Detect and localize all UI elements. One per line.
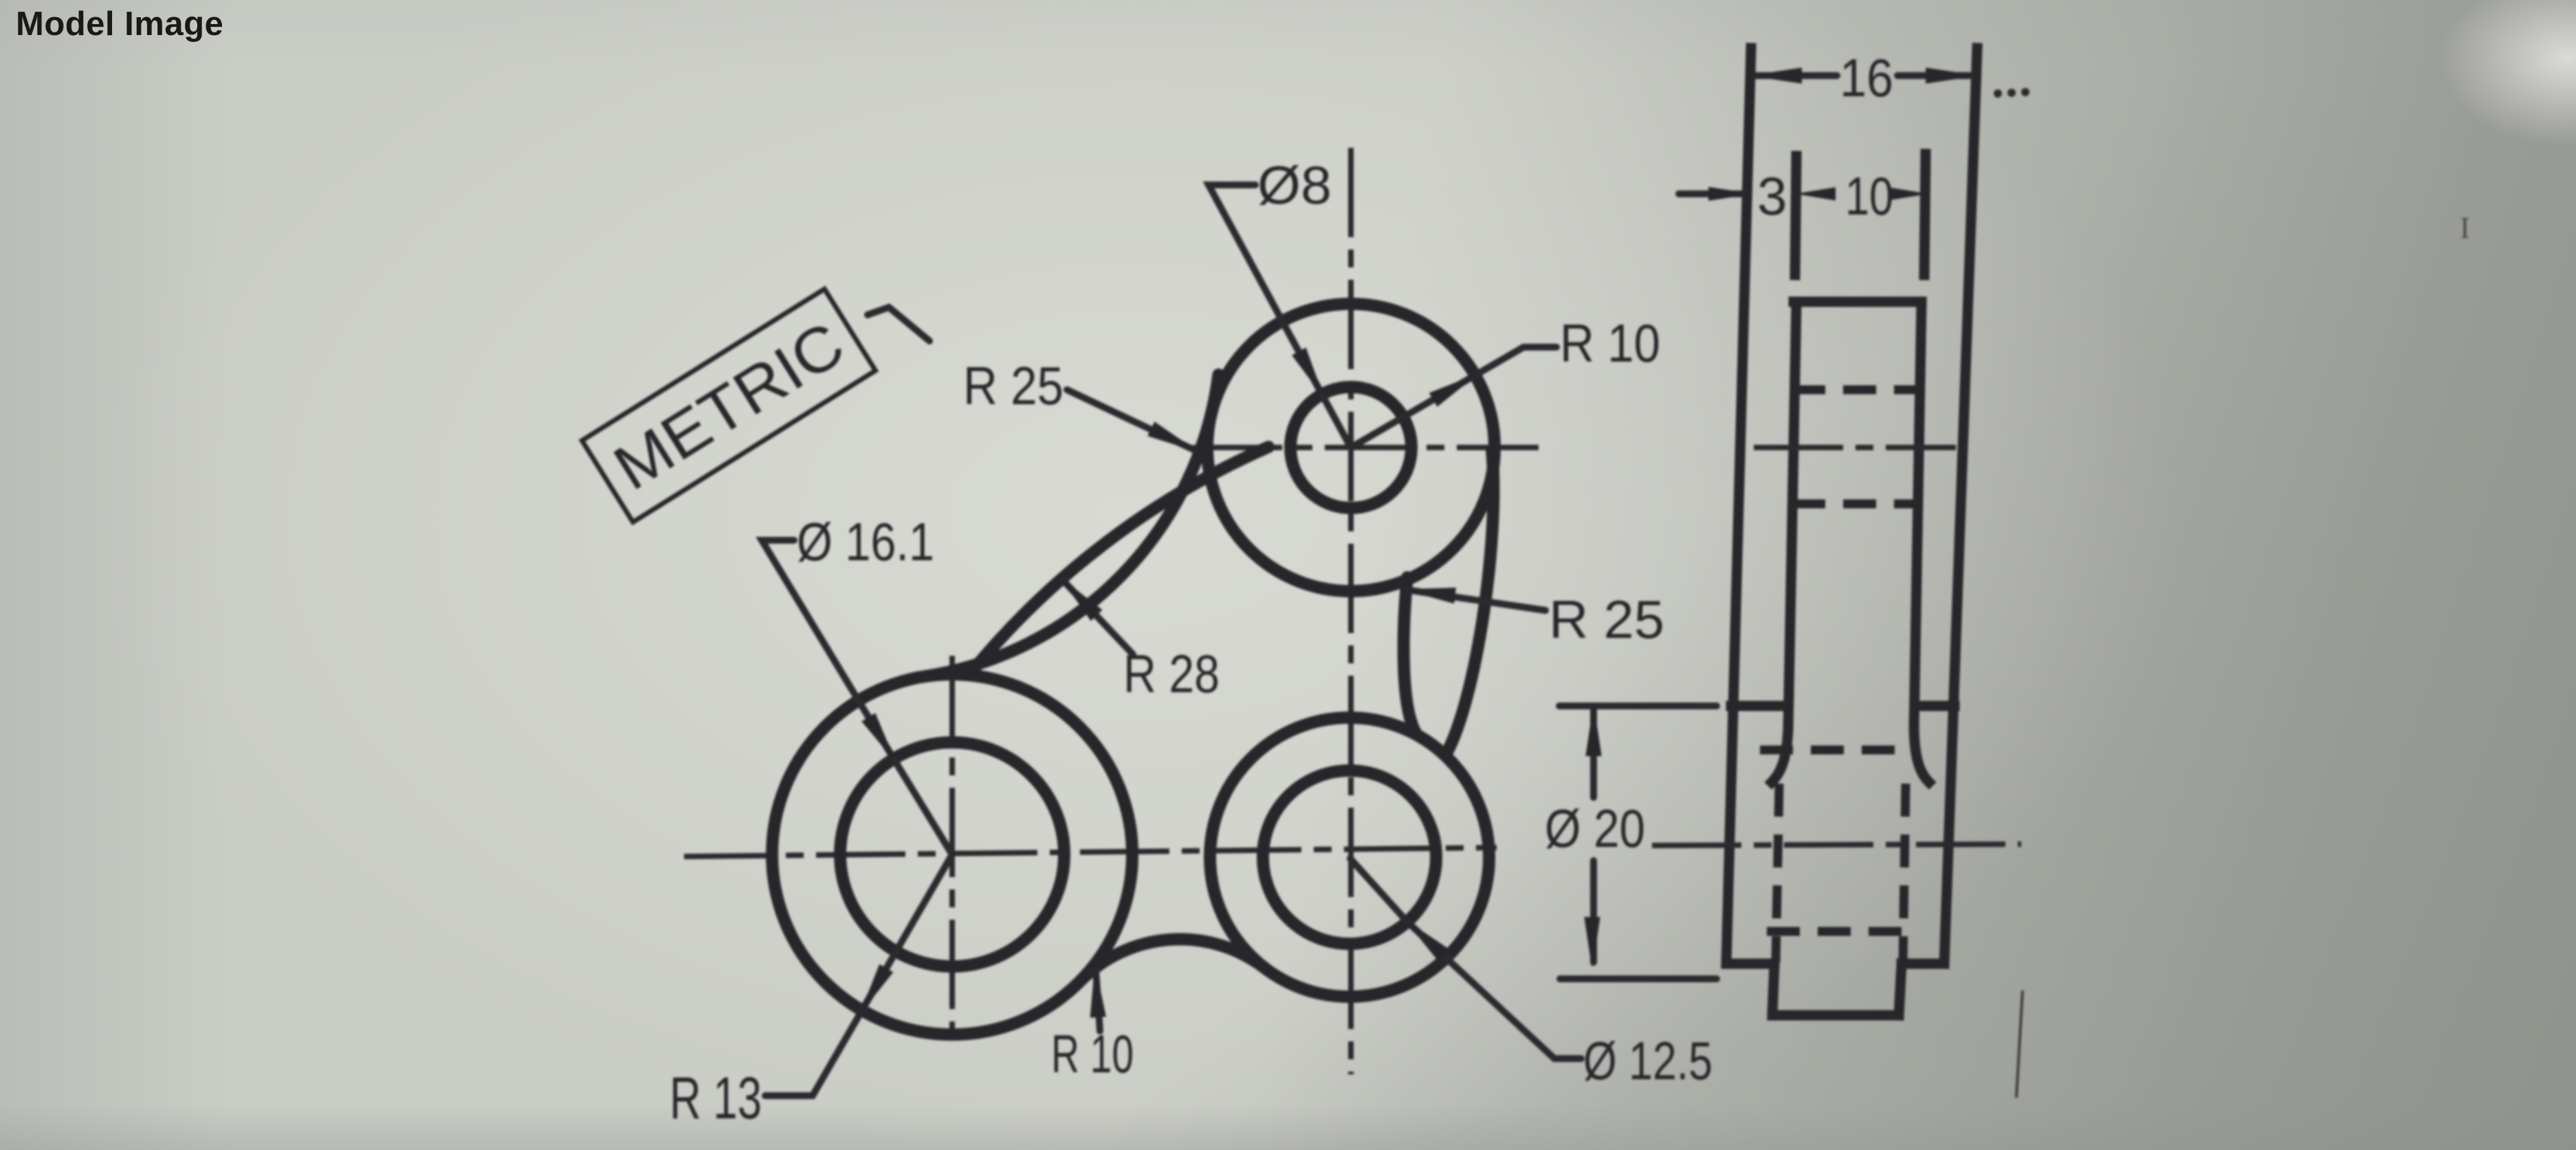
dim 3 and 10 xyxy=(1679,190,1746,197)
tangent arc R28 xyxy=(969,447,1269,675)
dia 20 dimension xyxy=(1559,703,1717,709)
left boss hidden edges xyxy=(1776,784,1906,962)
step sides xyxy=(1772,964,1902,1015)
svg-text:Ø 16.1: Ø 16.1 xyxy=(797,511,934,572)
neck left line with runout hook xyxy=(1772,302,1796,782)
bottom fillet arc R10 xyxy=(1081,939,1265,981)
hole dia8 hidden lines xyxy=(1792,390,1920,504)
centerline vertical left boss xyxy=(949,656,955,1043)
centerline vertical through top and right bosses xyxy=(1348,148,1354,1074)
left boss outer circle R13 xyxy=(772,674,1132,1035)
svg-text:R 25: R 25 xyxy=(963,355,1064,416)
right boss outer circle dia 20 xyxy=(1210,718,1489,997)
METRIC stamp xyxy=(582,289,876,522)
side view left face / extension line xyxy=(1726,48,1751,964)
svg-text:3: 3 xyxy=(1757,166,1787,226)
neck right edge arc R25 xyxy=(1446,450,1493,753)
side view right face / extension line xyxy=(1944,48,1977,964)
svg-text:R 13: R 13 xyxy=(670,1065,762,1131)
svg-text:10: 10 xyxy=(1845,166,1893,226)
top boss centerline xyxy=(1754,445,1956,450)
svg-text:I: I xyxy=(2460,211,2470,245)
dim 16 xyxy=(1755,72,1972,79)
dots xyxy=(1994,89,2002,98)
step bottom edge xyxy=(1772,1010,1899,1021)
top boss hole circle dia 8 xyxy=(1290,387,1411,508)
centerline horizontal top boss xyxy=(1193,445,1539,450)
svg-text:R 10: R 10 xyxy=(1560,313,1660,373)
tangent arc R25 upper left xyxy=(925,375,1218,676)
svg-text:Ø 20: Ø 20 xyxy=(1545,798,1645,859)
svg-text:Ø 12.5: Ø 12.5 xyxy=(1583,1030,1713,1091)
right boss hole circle dia 12.5 xyxy=(1263,771,1436,944)
svg-text:16: 16 xyxy=(1840,47,1893,108)
left boss hole circle dia 16.1 xyxy=(840,742,1064,966)
scratch line xyxy=(2016,991,2023,1098)
top boss outer circle R10 xyxy=(1207,304,1495,591)
neck left edge arc xyxy=(1404,577,1417,735)
svg-text:R 28: R 28 xyxy=(1123,643,1220,704)
side view centerline xyxy=(1652,844,2021,845)
hole dia12.5 hidden lines xyxy=(1760,750,1918,931)
svg-text:R 25: R 25 xyxy=(1549,589,1664,650)
neck right line with runout hook xyxy=(1914,302,1929,782)
svg-text:R 10: R 10 xyxy=(1051,1024,1134,1084)
bottom boss bottom edge xyxy=(1726,959,1944,969)
centerline horizontal bottom bosses xyxy=(684,848,1497,856)
stamp pointer tick xyxy=(868,307,929,341)
boss top edge xyxy=(1794,297,1922,307)
svg-text:Ø8: Ø8 xyxy=(1257,155,1332,215)
bottom boss top edge xyxy=(1731,701,1955,711)
